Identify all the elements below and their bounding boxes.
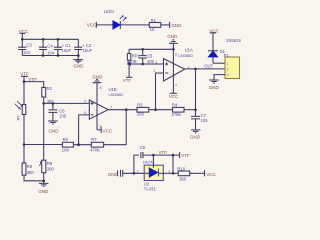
svg-text:R10: R10 bbox=[177, 166, 185, 171]
svg-text:VTF: VTF bbox=[181, 153, 190, 158]
power port VCC (U1B) bbox=[100, 127, 102, 133]
svg-text:1: 1 bbox=[227, 62, 229, 66]
svg-text:470K: 470K bbox=[171, 112, 181, 117]
wire U1A pin8 bbox=[172, 49, 174, 93]
svg-text:GND: GND bbox=[49, 129, 60, 134]
resistor R9 bbox=[22, 163, 26, 175]
svg-text:GND: GND bbox=[209, 85, 220, 90]
svg-text:P1: P1 bbox=[224, 53, 230, 58]
capacitor C6 bbox=[48, 103, 57, 120]
svg-text:LM358D: LM358D bbox=[109, 92, 124, 97]
svg-text:2: 2 bbox=[153, 69, 155, 73]
svg-text:1: 1 bbox=[188, 65, 190, 69]
svg-text:360: 360 bbox=[179, 177, 187, 182]
wire node B to R9 bbox=[23, 145, 25, 164]
svg-text:C5: C5 bbox=[147, 54, 153, 59]
svg-text:4: 4 bbox=[100, 124, 102, 128]
svg-text:C3: C3 bbox=[26, 42, 32, 47]
capacitor C5 bbox=[139, 49, 147, 64]
resistor R3 bbox=[137, 107, 149, 112]
wire VTF node to R2 bbox=[24, 82, 44, 88]
power port VCC (R10) bbox=[204, 170, 206, 176]
capacitor C4 bbox=[39, 39, 47, 55]
wire TL431 pin1 stub bbox=[152, 155, 154, 165]
capacitor C3 bbox=[18, 39, 26, 55]
svg-text:3: 3 bbox=[155, 60, 157, 64]
svg-text:+ C1: + C1 bbox=[62, 43, 72, 48]
svg-text:10K: 10K bbox=[62, 148, 70, 153]
ground (bottom left) bbox=[39, 183, 49, 186]
capacitor C2 bbox=[74, 39, 82, 55]
power port VCC (top-left) bbox=[20, 33, 26, 39]
svg-text:VCC: VCC bbox=[103, 129, 113, 134]
svg-text:R1: R1 bbox=[151, 18, 157, 23]
wire output to C7 column bbox=[195, 69, 197, 110]
svg-text:OUT: OUT bbox=[204, 63, 213, 68]
svg-text:GND: GND bbox=[92, 74, 103, 79]
svg-text:VTF: VTF bbox=[28, 77, 37, 82]
wire VTF column to pin3 row bbox=[172, 155, 174, 173]
svg-text:C9: C9 bbox=[140, 145, 146, 150]
resistor R2 bbox=[42, 88, 46, 98]
resistor R1 bbox=[149, 23, 161, 28]
svg-text:105: 105 bbox=[147, 59, 155, 64]
svg-text:GND: GND bbox=[38, 189, 49, 194]
wire: cap bank top rail bbox=[22, 38, 78, 40]
ground (below C7) bbox=[191, 130, 201, 133]
svg-text:360: 360 bbox=[47, 99, 55, 104]
svg-text:1Ref A: 1Ref A bbox=[143, 160, 154, 164]
svg-text:3: 3 bbox=[168, 170, 170, 174]
svg-text:R9: R9 bbox=[27, 164, 33, 169]
svg-text:6: 6 bbox=[84, 111, 86, 115]
potentiometer RP1 bbox=[126, 49, 131, 66]
wire node B to R6 bbox=[24, 144, 62, 146]
svg-text:105: 105 bbox=[201, 118, 209, 123]
resistor R8 bbox=[39, 160, 45, 173]
ground (P1) bbox=[209, 80, 219, 83]
wire U1A pin2 column bbox=[156, 73, 164, 110]
svg-text:TL431: TL431 bbox=[144, 186, 157, 191]
wire U1B pin6 feedback bbox=[79, 115, 90, 145]
svg-text:LM358D: LM358D bbox=[178, 53, 193, 58]
svg-text:4: 4 bbox=[175, 83, 177, 87]
svg-text:VCC: VCC bbox=[87, 22, 97, 27]
svg-text:R6: R6 bbox=[63, 137, 69, 142]
wire R4 to C7 column bbox=[184, 109, 196, 111]
svg-text:2: 2 bbox=[227, 68, 229, 72]
power port VTF (RP1) bbox=[126, 76, 132, 78]
svg-text:10uF: 10uF bbox=[83, 48, 93, 53]
ground (below C6) bbox=[48, 121, 58, 124]
svg-text:1K: 1K bbox=[150, 27, 155, 32]
svg-text:20K: 20K bbox=[137, 111, 145, 116]
svg-text:GND: GND bbox=[190, 135, 201, 140]
wire R6 to R7 bbox=[73, 144, 91, 146]
wire U1A output to P1 pin2 bbox=[185, 68, 225, 70]
resistor R6 bbox=[62, 142, 73, 147]
svg-text:5: 5 bbox=[84, 100, 86, 104]
svg-text:8: 8 bbox=[175, 53, 177, 57]
wire C7 column below bbox=[195, 110, 197, 117]
svg-text:105: 105 bbox=[59, 114, 67, 119]
wire P1 pin3 to ground bbox=[214, 75, 225, 80]
power port VTF (TL431 right) bbox=[179, 152, 181, 158]
svg-text:VCC: VCC bbox=[19, 29, 29, 34]
svg-text:GND: GND bbox=[108, 172, 119, 177]
svg-text:VCC: VCC bbox=[209, 28, 219, 33]
resistor R10 bbox=[178, 171, 190, 176]
svg-text:360: 360 bbox=[27, 170, 35, 175]
wire node A row to U1B pin5 bbox=[44, 102, 90, 104]
wire R7 to U1B output column bbox=[104, 110, 127, 145]
wire R2 to node A bbox=[43, 97, 45, 103]
wire top gnd rail (U1A pin8) bbox=[129, 48, 173, 50]
resistor R4 bbox=[173, 107, 185, 112]
svg-text:104: 104 bbox=[23, 50, 31, 55]
svg-text:+ C2: + C2 bbox=[82, 43, 92, 48]
wire TL431 pin3 to R10 bbox=[163, 172, 178, 174]
connector P1 bbox=[225, 57, 240, 79]
svg-text:3: 3 bbox=[227, 73, 229, 77]
power port VCC (top right) bbox=[210, 33, 216, 51]
wire R8 to ground bbox=[43, 173, 45, 183]
svg-text:470K: 470K bbox=[90, 148, 100, 153]
wire pin2 node up bbox=[134, 155, 139, 173]
ground (below cap bank) bbox=[74, 56, 84, 63]
capacitor C7 bbox=[191, 116, 200, 129]
wire C8 to TL431 pin2 bbox=[123, 172, 145, 174]
svg-text:GND: GND bbox=[167, 34, 178, 39]
wire R5 to node B bbox=[23, 115, 25, 145]
op-amp U1A bbox=[164, 59, 185, 81]
svg-text:LED1: LED1 bbox=[104, 9, 115, 14]
svg-text:7: 7 bbox=[110, 105, 112, 109]
svg-text:R3: R3 bbox=[137, 102, 143, 107]
svg-text:C4: C4 bbox=[47, 43, 53, 48]
photoresistor R5 bbox=[15, 82, 26, 115]
ground (above U1A) bbox=[169, 40, 178, 49]
power port VTF (left) bbox=[21, 76, 28, 81]
svg-text:GND: GND bbox=[73, 63, 84, 68]
svg-text:VTF: VTF bbox=[158, 150, 167, 155]
wire U1B pin4 to VCC port bbox=[97, 129, 101, 131]
capacitor C8 (GND side, TL431) bbox=[118, 170, 123, 177]
svg-text:R8: R8 bbox=[47, 161, 53, 166]
power port GND (LED row) bbox=[169, 22, 171, 28]
wire RP1 wiper to VTF port bbox=[128, 64, 130, 77]
LED LED1 bbox=[113, 15, 127, 29]
svg-text:R2: R2 bbox=[47, 86, 53, 91]
TL431 U2 bbox=[144, 165, 163, 180]
wire U1B output bbox=[108, 109, 137, 111]
wire R3 to R4 bbox=[149, 109, 173, 111]
op-amp U1B bbox=[89, 100, 108, 119]
svg-text:360: 360 bbox=[47, 167, 55, 172]
svg-text:VTF: VTF bbox=[123, 78, 132, 83]
svg-text:VTF: VTF bbox=[20, 71, 29, 76]
svg-text:500R: 500R bbox=[127, 59, 137, 64]
svg-text:VCC: VCC bbox=[206, 172, 216, 177]
wire D1 to P1 pin1 bbox=[213, 62, 225, 64]
wire U1B pin8 to ground bbox=[96, 83, 98, 130]
capacitor C9 bbox=[141, 152, 180, 158]
svg-text:104: 104 bbox=[47, 51, 55, 56]
resistor R7 bbox=[91, 142, 103, 147]
wire LED to R1 bbox=[120, 24, 149, 26]
wire R2 column to R8 bbox=[43, 103, 45, 160]
svg-text:10uF: 10uF bbox=[62, 48, 72, 53]
wire: cap bank bottom rail bbox=[22, 55, 78, 57]
svg-text:VCC: VCC bbox=[169, 94, 179, 99]
svg-text:R5: R5 bbox=[17, 115, 21, 120]
svg-text:R7: R7 bbox=[91, 137, 97, 142]
svg-text:2: 2 bbox=[137, 170, 139, 174]
wire RP1 bottom row to U1A pin3 bbox=[129, 63, 163, 65]
svg-text:1N5819: 1N5819 bbox=[226, 38, 241, 43]
svg-text:GND: GND bbox=[171, 23, 182, 28]
svg-text:8: 8 bbox=[100, 86, 102, 90]
diode D1 bbox=[208, 51, 218, 63]
capacitor C1 bbox=[54, 39, 62, 55]
power port VCC (LED row) bbox=[96, 22, 113, 28]
power port VCC (U1A) bbox=[170, 92, 177, 94]
svg-text:R4: R4 bbox=[172, 102, 178, 107]
wire R1 to GND port bbox=[161, 24, 170, 26]
svg-text:RP1: RP1 bbox=[132, 54, 141, 59]
wire R9 to bottom rail bbox=[24, 175, 44, 181]
wire R10 to VCC port bbox=[190, 172, 205, 174]
ground (above U1B) bbox=[93, 79, 102, 82]
